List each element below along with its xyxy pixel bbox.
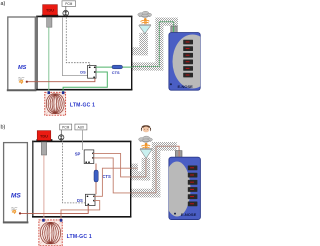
- svg-text:E-NOSE: E-NOSE: [181, 212, 197, 217]
- line coil to DS (b): [61, 201, 100, 221]
- svg-text:LTM-GC 1: LTM-GC 1: [70, 103, 95, 109]
- injector TDU (a): [42, 15, 58, 18]
- sniffer odor cloud and figure (b): [139, 136, 153, 149]
- line SP to DS through CTS (b): [95, 164, 97, 195]
- salmon stub line under sheath (b): [131, 167, 138, 169]
- GC oven box (b): [32, 140, 131, 142]
- Deans switch DS (b): [85, 194, 95, 205]
- svg-text:PCM: PCM: [65, 2, 72, 6]
- salmon line to funnel under sheath (b): [131, 159, 146, 177]
- line SP to funnel (b): [93, 153, 131, 177]
- PCM supply line solid (a): [62, 17, 87, 75]
- green line LTM coil to DS (a): [63, 72, 107, 93]
- svg-text:AUX: AUX: [78, 126, 85, 130]
- hatched bottom elbow (b): [131, 189, 161, 198]
- red transfer line DS to MS (a): [26, 78, 95, 81]
- injector TDU (b): [36, 139, 52, 142]
- hatched transfer line: elbow to wall (b): [131, 171, 151, 180]
- PCM dashed control line (b): [63, 140, 86, 203]
- ion spark icon (b): [11, 207, 17, 214]
- sniffing funnel (a): [139, 24, 151, 26]
- hatched transfer line: oven to riser (a): [131, 62, 163, 70]
- svg-text:E-NOSE: E-NOSE: [178, 84, 194, 89]
- hatched riser (b): [152, 142, 160, 197]
- LTM-GC 1 coil module (a): [45, 92, 66, 115]
- MS box (b): [4, 143, 28, 223]
- line DS to sniff stub (b): [94, 168, 131, 196]
- coil fittings (b): [42, 219, 45, 222]
- svg-text:DS: DS: [80, 70, 86, 75]
- AUX module (b): [75, 124, 87, 130]
- salmon line to E-NOSE under sheath (b): [131, 146, 179, 193]
- E-NOSE inlet connector (a): [171, 26, 177, 33]
- hatched transfer line: elbow to oven wall (a): [131, 47, 148, 55]
- MS box (a): [8, 17, 36, 90]
- Deans switch DS (a): [88, 65, 96, 78]
- hatched transfer line: top run to E-NOSE (a): [155, 18, 178, 26]
- svg-text:CTS: CTS: [112, 70, 120, 75]
- CTS trap (b): [94, 170, 98, 182]
- svg-text:MS: MS: [11, 193, 21, 200]
- svg-text:CTS: CTS: [102, 174, 111, 179]
- sniffing funnel (b): [140, 148, 152, 150]
- column from TDU to coil (b): [43, 155, 45, 221]
- GC oven box (a): [36, 15, 132, 17]
- E-NOSE device (b): [169, 157, 201, 219]
- hatched top run to E-NOSE (b): [152, 142, 177, 151]
- valve symbol (a): [63, 10, 69, 16]
- svg-text:TDU: TDU: [46, 7, 54, 12]
- svg-text:TDU: TDU: [40, 133, 48, 138]
- AUX supply line (b): [81, 130, 83, 150]
- LTM-GC 1 coil module (b): [39, 220, 62, 246]
- ion spark icon (a): [18, 77, 24, 84]
- hatched transfer line: funnel stem (b): [142, 158, 151, 181]
- valve symbol (b): [59, 135, 64, 140]
- svg-text:DS: DS: [77, 198, 83, 203]
- green line to E-NOSE under sheath (a): [132, 22, 174, 67]
- sniffer odor cloud and figure (a): [138, 11, 152, 24]
- red transfer line DS to MS (b): [20, 206, 88, 214]
- svg-text:b): b): [1, 124, 6, 130]
- E-NOSE inlet connector (b): [175, 151, 182, 158]
- PCM module (a): [62, 1, 76, 7]
- hatched port stub (b): [131, 164, 138, 172]
- column from injector to LTM coil (a): [48, 27, 50, 92]
- svg-text:MS: MS: [18, 65, 27, 71]
- svg-text:SP: SP: [75, 152, 81, 157]
- svg-text:PCM: PCM: [62, 126, 69, 130]
- PCM supply line dashed (a): [66, 17, 89, 65]
- green line DS to CTS to sniff port (a): [96, 66, 132, 68]
- coil fittings (a): [48, 91, 51, 94]
- hatched transfer line: funnel stem (a): [139, 33, 148, 56]
- hatched transfer line: riser (a): [155, 18, 163, 71]
- line SP to E-NOSE port (b): [93, 158, 131, 193]
- E-NOSE device (a): [169, 33, 200, 91]
- splitter SP (b): [84, 150, 94, 164]
- svg-text:a): a): [1, 1, 6, 7]
- svg-text:LTM-GC 1: LTM-GC 1: [67, 234, 92, 240]
- PCM module (b): [60, 124, 72, 130]
- sniffer face icon (b): [141, 125, 151, 132]
- CTS trap (a): [112, 65, 123, 69]
